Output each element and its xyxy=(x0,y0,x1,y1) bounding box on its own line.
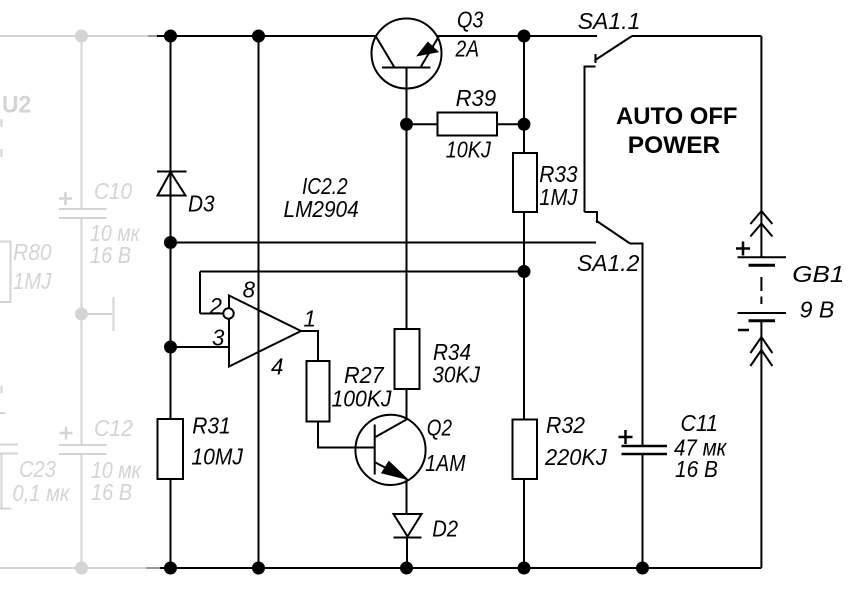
svg-text:4: 4 xyxy=(271,353,283,380)
node terminal bar xyxy=(113,297,115,331)
wire C23 lower lead xyxy=(0,454,11,509)
svg-text:POWER: POWER xyxy=(628,132,721,159)
svg-text:SA1.2: SA1.2 xyxy=(577,250,639,276)
op-amp U1 pin8/pin4 column xyxy=(258,36,260,568)
svg-text:1MJ: 1MJ xyxy=(13,268,52,295)
node bottom rail 2 xyxy=(252,562,265,575)
svg-text:SA1.1: SA1.1 xyxy=(578,8,641,34)
wire pin1 output xyxy=(301,331,318,361)
resistor R31 xyxy=(158,419,184,479)
node bottom rail 5 xyxy=(636,562,649,575)
svg-text:C12: C12 xyxy=(94,415,134,441)
svg-text:9 В: 9 В xyxy=(800,296,835,322)
plus sign of C10 xyxy=(59,192,72,205)
wire gray vertical below C12 xyxy=(81,454,83,568)
node feedback R33 R32 xyxy=(518,265,531,278)
battery break chevrons bottom xyxy=(750,337,772,353)
wire stub upper left xyxy=(0,412,6,414)
plus sign of C12 xyxy=(60,427,73,440)
svg-text:LM2904: LM2904 xyxy=(284,196,359,222)
svg-text:R31: R31 xyxy=(192,413,230,439)
wire R27 to Q2 base xyxy=(318,422,375,448)
wire node row y242 xyxy=(171,242,597,244)
IC U2 partial pin marks xyxy=(1,119,3,127)
diode D2 xyxy=(394,514,422,537)
wire SA1.2 pole xyxy=(630,244,643,446)
node Q3 base R39 xyxy=(400,118,413,131)
wire bottom transition segment xyxy=(146,567,160,569)
svg-text:AUTO OFF: AUTO OFF xyxy=(616,103,737,130)
wire R33 to R32 xyxy=(523,212,525,420)
wire pin3 lead xyxy=(171,346,230,348)
svg-text:U2: U2 xyxy=(2,91,31,118)
node D3 anode xyxy=(164,236,177,249)
node gray junction top xyxy=(75,30,88,43)
node R39 R33 xyxy=(518,118,531,131)
capacitor C10 xyxy=(59,208,107,210)
plus sign of GB1 xyxy=(736,242,750,256)
wire SA1.1 contact to link xyxy=(585,67,596,213)
wire C11 bottom lead xyxy=(642,454,644,568)
battery break chevrons top xyxy=(750,211,772,224)
svg-text:100KJ: 100KJ xyxy=(332,385,393,411)
resistor R33 xyxy=(513,153,537,212)
resistor R39 xyxy=(438,113,498,136)
svg-text:1MJ: 1MJ xyxy=(539,184,578,211)
capacitor C12 xyxy=(59,444,107,446)
wire R31 bottom lead xyxy=(170,479,172,568)
svg-text:8: 8 xyxy=(243,276,256,303)
wire gray top rail xyxy=(0,35,149,37)
diode D3 xyxy=(157,171,187,173)
battery dashed middle xyxy=(760,277,762,304)
svg-text:R80: R80 xyxy=(13,239,52,265)
node gray junction bottom xyxy=(75,562,88,575)
minus sign of GB1 xyxy=(738,329,749,332)
svg-text:Q2: Q2 xyxy=(427,415,452,441)
op-amp IC2.2 triangle xyxy=(229,296,301,367)
capacitor C23 (partial plates at edge) xyxy=(0,444,18,446)
svg-text:0,1 мк: 0,1 мк xyxy=(13,480,71,507)
wire gray stub from node to terminal bar xyxy=(82,313,113,315)
node bottom rail 4 xyxy=(518,562,531,575)
node pin3 xyxy=(164,341,177,354)
svg-text:1: 1 xyxy=(304,305,316,332)
svg-text:GB1: GB1 xyxy=(792,262,844,288)
wire gray vertical C10/C12 column upper xyxy=(81,36,83,209)
wire pin2 lead xyxy=(200,313,223,315)
svg-text:R39: R39 xyxy=(456,84,497,111)
wire R34 to Q2 collector xyxy=(406,389,408,420)
wire feedback corner xyxy=(199,272,201,314)
wire Q3 base lead xyxy=(406,68,408,125)
svg-text:Q3: Q3 xyxy=(457,6,483,33)
battery plate short second xyxy=(749,319,776,322)
wire bottom rail xyxy=(160,567,761,569)
svg-text:C10: C10 xyxy=(94,178,133,205)
svg-text:30KJ: 30KJ xyxy=(432,361,480,387)
svg-text:R27: R27 xyxy=(344,362,385,388)
switch SA1.2 contact step xyxy=(585,212,598,223)
switch SA1.1 contact tick xyxy=(595,54,597,63)
switch SA1.1 lever xyxy=(595,36,633,61)
transistor Q3 xyxy=(372,19,442,89)
wire D2 bottom lead xyxy=(406,538,408,569)
svg-text:3: 3 xyxy=(212,324,225,351)
node top rail pin8 xyxy=(252,30,265,43)
svg-text:10MJ: 10MJ xyxy=(191,443,243,469)
wire Q2 emitter to D2 xyxy=(406,479,408,514)
wire battery column lower xyxy=(760,321,762,569)
capacitor C11 xyxy=(622,445,668,448)
battery plate short xyxy=(749,264,776,267)
svg-text:R32: R32 xyxy=(546,412,586,438)
resistor R32 xyxy=(513,420,538,480)
battery plate long second xyxy=(738,312,787,314)
battery GB1 xyxy=(736,211,786,366)
wire R34 column xyxy=(406,124,408,329)
wire top rail middle segment xyxy=(437,35,598,37)
op-amp inverting input bubble xyxy=(223,308,233,318)
transistor Q2 xyxy=(355,415,425,485)
wire gray bottom rail xyxy=(0,567,146,569)
svg-text:C11: C11 xyxy=(681,410,719,436)
wire left rail upper xyxy=(170,36,172,419)
svg-text:16 В: 16 В xyxy=(91,478,132,505)
wire column D upper xyxy=(523,36,525,153)
switch SA1.2 lever xyxy=(596,221,630,244)
node top rail left xyxy=(164,30,177,43)
svg-text:C23: C23 xyxy=(19,456,56,483)
wire R32 bottom lead xyxy=(523,479,525,568)
wire R39 left lead xyxy=(407,123,438,125)
svg-text:2: 2 xyxy=(209,292,223,319)
wire top rail left segment xyxy=(157,35,377,37)
node gray junction middle xyxy=(75,308,88,321)
svg-text:16 В: 16 В xyxy=(675,456,718,482)
plus sign of C11 xyxy=(619,430,633,444)
svg-text:D3: D3 xyxy=(188,191,215,217)
resistor R80 (partial box at edge) xyxy=(0,242,11,303)
wire top rail right segment xyxy=(632,35,761,37)
svg-text:10KJ: 10KJ xyxy=(446,136,492,163)
wire gray vertical between C10 and C12 xyxy=(81,218,83,445)
svg-text:D2: D2 xyxy=(432,515,458,542)
svg-text:2A: 2A xyxy=(455,36,479,62)
node bottom rail 1 xyxy=(164,562,177,575)
wire transition segment xyxy=(148,35,157,37)
node bottom rail 3 xyxy=(400,562,413,575)
resistor R27 xyxy=(307,361,330,422)
svg-text:220KJ: 220KJ xyxy=(544,443,607,470)
svg-text:1AM: 1AM xyxy=(425,449,465,476)
node top rail right xyxy=(518,30,531,43)
battery plate long positive xyxy=(738,256,787,258)
resistor R34 xyxy=(395,329,420,389)
wire battery column upper xyxy=(760,36,762,257)
node junction dots xyxy=(164,30,649,575)
wire node row y271 feedback xyxy=(200,271,524,273)
wire R39 right lead xyxy=(497,123,524,125)
svg-text:16 В: 16 В xyxy=(90,241,131,268)
